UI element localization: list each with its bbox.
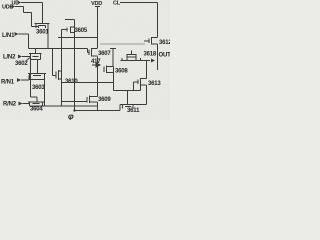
svg-text:R/N2: R/N2 bbox=[3, 102, 17, 108]
node UD arrow bbox=[18, 1, 22, 5]
wire 3607 gate lead bbox=[88, 49, 90, 53]
transistor 3609 bbox=[87, 96, 98, 104]
node L/N2 arrow bbox=[18, 55, 22, 59]
transistor 3611 bbox=[123, 105, 134, 109]
wire UDB vertical bbox=[31, 13, 33, 27]
wire UDB jog bbox=[24, 7, 32, 13]
svg-text:3612: 3612 bbox=[159, 40, 170, 46]
svg-text:3601: 3601 bbox=[36, 30, 49, 36]
wire UDB to gate of 3601 bbox=[32, 26, 39, 28]
wire L/N2 to gate of 3602 bbox=[22, 56, 30, 58]
svg-text:3602: 3602 bbox=[15, 61, 28, 67]
svg-text:L/N2: L/N2 bbox=[3, 55, 16, 61]
wire right rail lower bbox=[146, 85, 148, 105]
node OUT arrow bbox=[151, 59, 155, 63]
transistor 3605 bbox=[62, 27, 75, 34]
wire right rail 3612 to OUT node bbox=[157, 44, 159, 61]
wire 3604 drain line to VDD rail bbox=[43, 105, 98, 107]
wire 3610 gate from L/N1 line bbox=[53, 49, 57, 76]
wire 3601 right leg down to L/N1 line bbox=[47, 24, 49, 49]
svg-text:3604: 3604 bbox=[30, 107, 43, 113]
wire mid horizontal y90 bbox=[114, 90, 141, 92]
node T tick bbox=[110, 48, 116, 50]
faint crease line bbox=[100, 43, 145, 45]
wire VDD rail lower bbox=[97, 102, 99, 111]
wire 3613 source tail bbox=[140, 86, 142, 91]
wire right rail below OUT bbox=[157, 61, 159, 71]
wire T stem to 3608 bbox=[112, 49, 114, 67]
svg-text:L/N1: L/N1 bbox=[2, 33, 15, 39]
wire mid rail x74 bbox=[74, 20, 76, 111]
svg-text:CL: CL bbox=[113, 1, 121, 7]
wire CL drop bbox=[157, 3, 159, 38]
wire L/N1 horizontal bbox=[19, 33, 29, 35]
transistor 3613 bbox=[134, 78, 147, 86]
transistor 3608 bbox=[104, 66, 114, 74]
svg-text:3607: 3607 bbox=[98, 51, 111, 57]
wire bottom rail right bbox=[120, 104, 147, 106]
svg-text:3613: 3613 bbox=[148, 81, 161, 87]
wire VDD rail middle bbox=[97, 57, 99, 97]
wire UD drop to 3601 bbox=[42, 3, 44, 24]
wire 3608 legs down bbox=[113, 67, 115, 91]
wire VDD rail top tick bbox=[95, 6, 100, 8]
svg-text:3603: 3603 bbox=[32, 85, 45, 91]
label 3602 leader bbox=[27, 58, 31, 61]
wire L/N1 down bbox=[28, 34, 30, 49]
svg-text:3608: 3608 bbox=[115, 69, 128, 75]
wire R/N2 to gate of 3604 bbox=[23, 103, 30, 105]
node R/N2 arrow bbox=[19, 102, 23, 106]
svg-text:3605: 3605 bbox=[75, 28, 88, 34]
wire left mid rail bbox=[61, 30, 63, 107]
wire jog into 3604 bbox=[31, 97, 38, 102]
wire UD horizontal bbox=[21, 2, 43, 4]
transistor 3607 bbox=[89, 48, 98, 57]
wire OUT line bbox=[121, 60, 151, 62]
wire right branch down to 3613 bbox=[146, 61, 148, 79]
wire common line bbox=[62, 82, 114, 84]
wire 3609 gate line bbox=[62, 101, 88, 103]
wire bottom rail left bbox=[75, 110, 121, 112]
wire 3602 drain stem bbox=[35, 49, 37, 54]
node 417 arrow bbox=[92, 63, 100, 67]
junction dot bottom rail bbox=[73, 109, 75, 111]
wire 3602 source down to 3604 bbox=[30, 60, 32, 98]
svg-text:R/N1: R/N1 bbox=[1, 80, 15, 86]
wire 3605 top hook bbox=[65, 19, 75, 21]
wire mid horizontal y37 bbox=[58, 37, 98, 39]
transistor 3618 bbox=[122, 51, 141, 61]
node UDB arrow bbox=[12, 5, 16, 9]
wire VDD rail upper bbox=[97, 7, 99, 49]
transistor 3603 bbox=[28, 74, 46, 81]
svg-text:3611: 3611 bbox=[127, 108, 140, 114]
wire CL horizontal bbox=[120, 2, 158, 4]
wire 3603 right leg down to bottom rail bbox=[44, 74, 46, 107]
transistor 3601 bbox=[35, 24, 50, 29]
wire bottom jog bbox=[119, 105, 121, 111]
wire UDB horizontal bbox=[15, 6, 24, 8]
node L/N1 arrow bbox=[15, 32, 19, 36]
wire 3613 gate drop bbox=[133, 82, 135, 91]
svg-text:3609: 3609 bbox=[98, 97, 111, 103]
wire L/N1 long line bbox=[29, 48, 88, 50]
transistor 3604 bbox=[28, 102, 44, 106]
wire branch down to 3611 bbox=[127, 91, 129, 105]
svg-text:3618: 3618 bbox=[144, 52, 157, 58]
svg-text:φ: φ bbox=[68, 112, 74, 120]
transistor 3610 bbox=[56, 70, 62, 80]
svg-text:OUT: OUT bbox=[159, 53, 171, 59]
wire 3603 drain stem bbox=[37, 60, 39, 74]
transistor 3612 bbox=[144, 37, 158, 45]
node R/N1 arrow bbox=[17, 78, 21, 82]
transistor 3602 bbox=[29, 54, 42, 60]
wire R/N1 to gate of 3603 bbox=[21, 79, 29, 81]
